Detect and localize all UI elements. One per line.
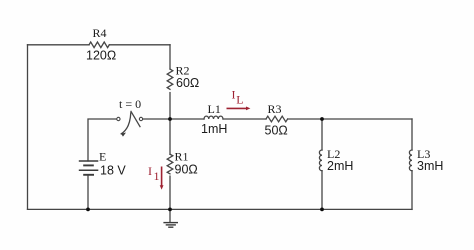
wire L3 top vertical xyxy=(411,119,413,150)
svg-text:60Ω: 60Ω xyxy=(176,76,199,90)
svg-text:1: 1 xyxy=(154,169,160,183)
svg-text:I: I xyxy=(148,164,152,178)
wire R2 top vertical xyxy=(169,45,171,69)
resistor R2 xyxy=(167,69,173,89)
ground junction dot xyxy=(168,208,172,212)
battery E plates xyxy=(79,161,99,175)
L2 bottom junction dot xyxy=(320,208,324,212)
inductor L1 xyxy=(204,116,223,119)
wire battery bottom vertical xyxy=(87,175,89,210)
wire L2 top vertical xyxy=(321,119,323,150)
resistor R3 xyxy=(266,116,288,122)
wire battery top corner xyxy=(88,119,119,161)
node B junction dot xyxy=(320,117,324,121)
svg-text:90Ω: 90Ω xyxy=(175,162,198,176)
resistor R1 xyxy=(167,154,173,174)
current arrow IL xyxy=(227,107,251,111)
svg-text:E: E xyxy=(99,149,106,163)
wire L2 bottom vertical xyxy=(321,171,323,210)
battery bottom junction dot xyxy=(86,208,90,212)
resistor R4 xyxy=(89,42,109,48)
svg-text:R4: R4 xyxy=(93,26,107,40)
wire L1 to R3 xyxy=(223,118,266,120)
svg-text:I: I xyxy=(232,87,236,101)
current arrow I1 xyxy=(160,167,164,190)
svg-text:18 V: 18 V xyxy=(100,164,126,178)
svg-text:1mH: 1mH xyxy=(201,122,227,136)
node A junction dot xyxy=(168,117,172,121)
svg-text:2mH: 2mH xyxy=(327,159,353,173)
wire bottom horizontal xyxy=(28,208,413,210)
wire node A to L1 xyxy=(170,118,204,120)
wire R3 to right corner xyxy=(288,118,412,120)
inductor L3 xyxy=(409,150,412,171)
svg-text:L: L xyxy=(236,92,243,106)
svg-text:t = 0: t = 0 xyxy=(119,97,141,111)
wire R2 bottom vertical xyxy=(169,93,171,119)
svg-text:R3: R3 xyxy=(268,102,282,116)
ground xyxy=(163,223,178,228)
svg-text:120Ω: 120Ω xyxy=(86,49,116,63)
inductor L2 xyxy=(319,150,322,171)
wire top horizontal R4 to top-right corner xyxy=(109,44,170,46)
svg-text:3mH: 3mH xyxy=(417,159,443,173)
switch blade xyxy=(131,111,140,126)
svg-text:L1: L1 xyxy=(208,102,221,116)
wire left vertical xyxy=(27,45,29,210)
wire L3 bottom vertical xyxy=(411,171,413,210)
wire top-left horizontal to R4 xyxy=(28,44,90,46)
ground stub wire xyxy=(169,209,171,222)
switch closing arrow xyxy=(121,113,131,134)
wire R1 bottom vertical xyxy=(169,176,171,209)
svg-text:50Ω: 50Ω xyxy=(265,124,288,138)
wire switch to node A xyxy=(143,118,170,120)
wire R1 top vertical xyxy=(169,119,171,154)
svg-text:R1: R1 xyxy=(175,149,189,163)
switch arrow head xyxy=(121,132,126,137)
switch terminal circles xyxy=(117,117,120,120)
